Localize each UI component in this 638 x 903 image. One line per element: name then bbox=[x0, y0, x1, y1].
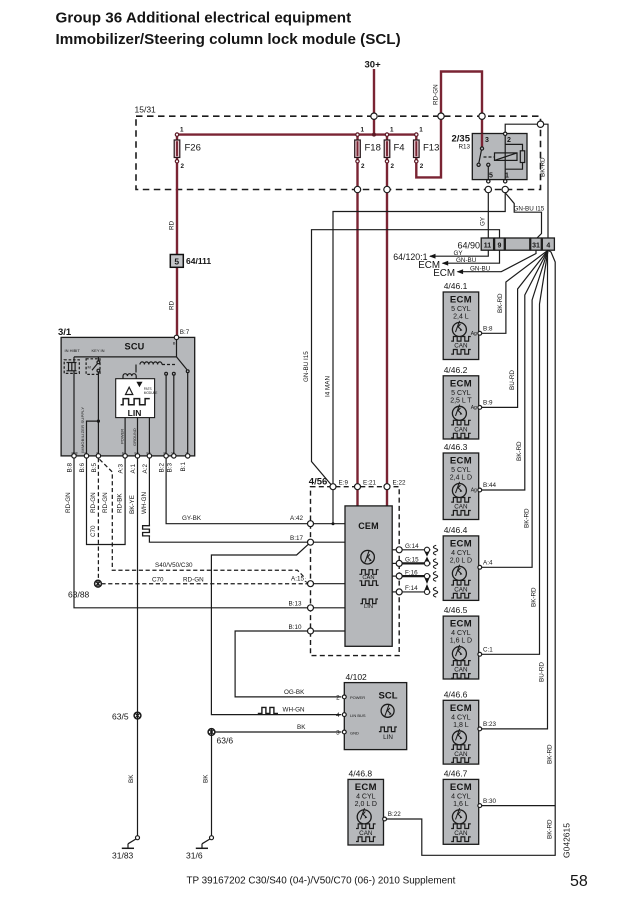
SCL immobilizer circle bbox=[381, 704, 394, 717]
svg-text:LIN: LIN bbox=[364, 604, 373, 610]
relay resistor branch bbox=[505, 144, 522, 150]
svg-text:GN-BU I15: GN-BU I15 bbox=[303, 351, 310, 382]
svg-text:4: 4 bbox=[336, 712, 340, 719]
LIN square wave bbox=[121, 399, 150, 405]
svg-text:BK: BK bbox=[128, 774, 135, 783]
wire B:13 internal bbox=[314, 607, 346, 609]
wire BK-RD to 4/46.4 A:4 bbox=[482, 250, 548, 567]
node A:15 bbox=[308, 581, 314, 587]
ground 31/83 bbox=[122, 836, 140, 849]
svg-text:RD-GN: RD-GN bbox=[90, 492, 97, 513]
ground point 63/6 bbox=[208, 729, 215, 736]
svg-text:POWER: POWER bbox=[120, 429, 125, 444]
svg-text:GN-BU: GN-BU bbox=[470, 266, 491, 273]
svg-text:E:22: E:22 bbox=[393, 479, 406, 486]
wire BK-RD to 4/46.7 B:30 and 4/46.8 B:22 bbox=[386, 250, 555, 855]
arrowhead 64/120:1 bbox=[429, 254, 436, 259]
wire BK-RD to 4/46.1 B:8 bbox=[482, 250, 548, 333]
wire dashed B:5 branch S40/V50/C30 to CEM A:15 bbox=[100, 459, 306, 578]
svg-text:R13: R13 bbox=[458, 144, 470, 151]
CEM immobilizer circle bbox=[361, 550, 375, 564]
svg-text:BK-RD: BK-RD bbox=[497, 293, 504, 313]
junction 30+ on bus bbox=[372, 133, 376, 137]
svg-text:B:8: B:8 bbox=[483, 326, 493, 333]
svg-text:A:15: A:15 bbox=[291, 576, 304, 583]
LIN wave on WH-GN wire bbox=[259, 707, 278, 714]
svg-text:WH-GN: WH-GN bbox=[141, 492, 148, 514]
arrowhead ECM upper bbox=[442, 261, 449, 266]
wire GN-BU pin31 to ECM arrow bbox=[458, 250, 536, 272]
PAGE-TITLE bbox=[56, 9, 401, 48]
contact B:3 bbox=[172, 372, 175, 375]
wire F13 to relay pin3 (RD-GN) bbox=[416, 72, 482, 178]
wire BK SCL pin3 to 63/6 bbox=[215, 731, 341, 733]
SCL pin 4 LIN BUS bbox=[342, 713, 346, 717]
svg-text:B:3: B:3 bbox=[166, 463, 173, 473]
connector 64/90 cell 4 bbox=[542, 238, 554, 250]
svg-text:63/5: 63/5 bbox=[112, 712, 129, 722]
node E:21 bbox=[355, 484, 361, 490]
svg-text:MODULE: MODULE bbox=[144, 391, 158, 395]
terminal relay pin5 bbox=[487, 180, 490, 183]
wire 30+ feed (RD) bbox=[373, 69, 375, 135]
svg-text:F26: F26 bbox=[185, 143, 201, 154]
svg-text:BK: BK bbox=[297, 724, 306, 731]
ground 31/6 bbox=[196, 836, 214, 849]
svg-text:64/90: 64/90 bbox=[457, 240, 480, 250]
svg-text:Ag: Ag bbox=[471, 405, 477, 411]
wire LIN ground A:1 bbox=[137, 418, 139, 456]
wire GY-BK B:2 to CEM A:42 bbox=[166, 458, 307, 524]
svg-text:LIN: LIN bbox=[128, 408, 142, 418]
svg-text:ECM: ECM bbox=[450, 703, 472, 714]
svg-text:GN-BU: GN-BU bbox=[456, 257, 477, 264]
svg-text:Immobilizer/Steering column lo: Immobilizer/Steering column lock module … bbox=[56, 31, 401, 48]
wire BK-RD to 4/46.5 C:1 bbox=[482, 250, 548, 654]
svg-text:B:13: B:13 bbox=[289, 601, 302, 608]
wire GY to 64/120:1 bbox=[430, 250, 488, 256]
svg-text:BK-RD: BK-RD bbox=[546, 744, 553, 764]
svg-text:POWER: POWER bbox=[350, 695, 365, 700]
svg-text:1: 1 bbox=[419, 127, 423, 134]
svg-text:ECM: ECM bbox=[450, 295, 472, 306]
svg-text:CAN: CAN bbox=[362, 575, 374, 581]
wire contact B:1 down bbox=[187, 373, 189, 456]
svg-text:G042615: G042615 bbox=[562, 823, 572, 858]
svg-text:2,4 L: 2,4 L bbox=[453, 314, 469, 321]
wire E:9 internal bbox=[332, 490, 334, 524]
svg-text:4 CYL: 4 CYL bbox=[451, 630, 471, 637]
svg-text:F13: F13 bbox=[423, 143, 439, 154]
svg-text:11: 11 bbox=[484, 243, 492, 250]
node A:42 bbox=[308, 521, 314, 527]
svg-text:GY-BK: GY-BK bbox=[182, 515, 202, 522]
wire RD-GN B:8 to CEM B:13 bbox=[74, 458, 308, 608]
svg-text:IMMOBILIZER SUPPLY: IMMOBILIZER SUPPLY bbox=[80, 407, 85, 453]
relay 2/35 box bbox=[472, 134, 527, 180]
svg-text:B:1: B:1 bbox=[180, 462, 187, 472]
wire A:42 internal bbox=[314, 523, 346, 525]
ECM module 4/46.6 bbox=[443, 689, 496, 764]
node relay pin1 on 15/31 boundary bbox=[502, 186, 508, 192]
svg-text:3: 3 bbox=[336, 730, 340, 737]
fuse F18 bbox=[355, 127, 381, 171]
svg-text:BK-RD: BK-RD bbox=[531, 587, 538, 607]
svg-text:3/1: 3/1 bbox=[58, 327, 72, 338]
svg-text:GROUND: GROUND bbox=[132, 428, 137, 446]
node RD-GN right on 15/31 boundary bbox=[479, 113, 485, 119]
ECM module 4/46.7 bbox=[443, 768, 496, 844]
wire BK-RD node to 64/90 pin4 bbox=[544, 124, 548, 238]
wire resistor bottom bbox=[505, 163, 522, 170]
svg-text:B:22: B:22 bbox=[388, 811, 401, 818]
tiny internal pin letters bbox=[72, 451, 189, 455]
relay actuator dashed bbox=[484, 156, 495, 158]
svg-text:B:7: B:7 bbox=[180, 329, 190, 336]
svg-text:F4: F4 bbox=[394, 143, 405, 154]
svg-text:G:14: G:14 bbox=[405, 543, 419, 550]
svg-text:F18: F18 bbox=[365, 143, 381, 154]
svg-text:E:21: E:21 bbox=[363, 479, 376, 486]
svg-text:5 CYL: 5 CYL bbox=[451, 390, 471, 397]
wire dashed C70 RD-GN 63/88 to CEM A:15 bbox=[101, 583, 307, 585]
svg-text:CAN: CAN bbox=[454, 667, 468, 674]
connector 64/111 (square 5) bbox=[170, 255, 211, 268]
svg-text:A:2: A:2 bbox=[142, 464, 149, 474]
svg-text:B:8: B:8 bbox=[67, 463, 74, 473]
wire GN-BU pin9 to ECM arrow bbox=[443, 250, 500, 263]
svg-text:TP 39167202 C30/S40 (04-)/V50/: TP 39167202 C30/S40 (04-)/V50/C70 (06-) … bbox=[187, 876, 456, 887]
svg-text:5: 5 bbox=[174, 256, 179, 266]
key switch dashed box bbox=[86, 359, 100, 375]
svg-text:31/83: 31/83 bbox=[112, 851, 134, 861]
pin SCU B:7 bbox=[174, 335, 178, 339]
svg-text:1: 1 bbox=[180, 127, 184, 134]
svg-text:B:44: B:44 bbox=[483, 482, 496, 489]
wire contact B:2 down bbox=[165, 375, 167, 456]
svg-text:30+: 30+ bbox=[365, 60, 382, 71]
svg-text:9: 9 bbox=[498, 243, 502, 250]
svg-text:ECM: ECM bbox=[355, 782, 377, 793]
connector 64/90 cell 31 bbox=[531, 238, 542, 250]
svg-text:1,8 L: 1,8 L bbox=[453, 722, 469, 729]
svg-text:C70: C70 bbox=[90, 525, 97, 537]
svg-text:M: M bbox=[88, 365, 91, 370]
svg-text:CAN: CAN bbox=[454, 751, 468, 758]
svg-text:GND: GND bbox=[350, 730, 359, 735]
fuse F26 bbox=[174, 127, 201, 171]
solenoid dashed link with spring bbox=[136, 362, 177, 373]
wire contact B:3 down bbox=[173, 375, 175, 456]
svg-text:BK-RD: BK-RD bbox=[540, 157, 547, 177]
wire GN-BU 64/90 pin9 to CEM E:9 bbox=[312, 230, 500, 485]
wire A:15 internal bbox=[314, 583, 346, 585]
SCL pin 3 GND bbox=[342, 730, 346, 734]
wire WH-GN SCL pin4 to CEM B:17 bbox=[211, 544, 341, 714]
svg-text:2,4 L D: 2,4 L D bbox=[450, 475, 472, 482]
svg-text:4: 4 bbox=[546, 243, 550, 250]
svg-text:F:14: F:14 bbox=[405, 585, 418, 592]
connector 64/90 cell 11 bbox=[481, 238, 493, 250]
LIN wave on A:2 wire bbox=[143, 525, 150, 538]
svg-text:SCL: SCL bbox=[379, 691, 398, 702]
svg-text:BU-RD: BU-RD bbox=[509, 370, 516, 390]
terminal relay pin1 bbox=[504, 180, 507, 183]
wire LIN bus A:2 bbox=[148, 418, 150, 456]
wire F4 down to CEM E:22 (RD) bbox=[386, 135, 388, 487]
relay contact NC bbox=[477, 163, 480, 166]
svg-text:ECM: ECM bbox=[450, 378, 472, 389]
svg-text:4/46.5: 4/46.5 bbox=[444, 605, 468, 615]
svg-text:OG-BK: OG-BK bbox=[284, 689, 305, 696]
svg-text:GY: GY bbox=[479, 216, 486, 226]
svg-text:CAN: CAN bbox=[359, 830, 373, 837]
svg-text:4/46.4: 4/46.4 bbox=[444, 525, 468, 535]
relay switch arm bbox=[479, 150, 482, 163]
wire B:7 internal vertical bbox=[176, 340, 178, 357]
node F4 wire on 15/31 boundary bbox=[384, 186, 390, 192]
junction B:6 branch bbox=[97, 420, 100, 423]
ECM module 4/46.2 bbox=[443, 365, 493, 439]
svg-text:64/111: 64/111 bbox=[186, 256, 211, 266]
svg-text:IN HIBIT: IN HIBIT bbox=[65, 348, 81, 353]
svg-text:B:6: B:6 bbox=[79, 463, 86, 473]
svg-text:WH-GN: WH-GN bbox=[283, 707, 305, 714]
wire BK-RD to 4/46.3 B:44 bbox=[482, 250, 548, 490]
svg-text:S40/V50/C30: S40/V50/C30 bbox=[155, 562, 193, 569]
svg-text:4/46.2: 4/46.2 bbox=[444, 365, 468, 375]
svg-text:Ag: Ag bbox=[471, 331, 477, 337]
ECM module 4/46.4 bbox=[443, 525, 493, 601]
svg-text:A:4: A:4 bbox=[483, 560, 493, 567]
wire antenna to pin B:8 bbox=[73, 373, 75, 456]
svg-text:GY: GY bbox=[454, 250, 464, 257]
wire GN-BU relay pin1 to 64/90 pin31 bbox=[505, 193, 541, 238]
svg-text:B:5: B:5 bbox=[91, 463, 98, 473]
svg-text:CEM: CEM bbox=[358, 521, 379, 531]
svg-text:4 CYL: 4 CYL bbox=[451, 793, 471, 800]
svg-text:4/46.1: 4/46.1 bbox=[444, 281, 468, 291]
svg-text:1,6 L: 1,6 L bbox=[453, 801, 469, 808]
wire B:17 internal bbox=[314, 541, 346, 543]
terminal relay pin2 bbox=[504, 132, 507, 135]
svg-text:4/56: 4/56 bbox=[309, 476, 328, 487]
svg-text:2: 2 bbox=[507, 137, 511, 144]
svg-text:4/102: 4/102 bbox=[346, 672, 368, 682]
node F18 wire on 15/31 boundary bbox=[354, 186, 360, 192]
svg-text:2: 2 bbox=[336, 695, 340, 702]
contact B:2 bbox=[165, 372, 168, 375]
svg-text:B:17: B:17 bbox=[290, 535, 303, 542]
ECM module 4/46.8 bbox=[348, 768, 401, 845]
wire relay pin2 to node BK-RD bbox=[505, 124, 540, 132]
key switch contact upper bbox=[97, 361, 100, 364]
svg-text:1: 1 bbox=[361, 127, 365, 134]
contact B:1 bbox=[186, 370, 189, 373]
svg-text:4/46.6: 4/46.6 bbox=[444, 689, 468, 699]
ECM module 4/46.1 bbox=[443, 281, 493, 360]
svg-text:2: 2 bbox=[181, 163, 185, 170]
wire red supply bus bbox=[177, 133, 416, 135]
svg-text:RD-GN: RD-GN bbox=[102, 492, 109, 513]
CEM right pins G:14 G:15 F:16 F:14 bbox=[392, 549, 396, 551]
wire F18 down to CEM E:21 (RD) bbox=[356, 135, 358, 487]
LIN triangle outline bbox=[126, 387, 133, 394]
wire internal supply rail bbox=[74, 356, 177, 358]
SCL LIN symbol bbox=[379, 727, 397, 732]
CEM CAN symbol bbox=[359, 570, 378, 575]
key switch contact lower bbox=[97, 369, 100, 372]
svg-text:31: 31 bbox=[532, 243, 540, 250]
node RD-GN left on 15/31 boundary bbox=[438, 113, 444, 119]
svg-text:5 CYL: 5 CYL bbox=[451, 467, 471, 474]
junction E:9/A:42 bbox=[332, 522, 335, 525]
wire branch to pin B:6 bbox=[87, 421, 99, 456]
fuse F13 bbox=[414, 127, 440, 171]
wire jumper B:6 to A:3 (C70) bbox=[87, 458, 126, 544]
svg-text:ECM: ECM bbox=[450, 538, 472, 549]
wire A:2 lower to B:17 bbox=[149, 537, 307, 542]
CEM dashed box 4/56 bbox=[311, 487, 400, 656]
svg-text:A:42: A:42 bbox=[290, 515, 303, 522]
svg-text:B:23: B:23 bbox=[483, 721, 496, 728]
svg-text:B:2: B:2 bbox=[159, 463, 166, 473]
svg-text:E:9: E:9 bbox=[339, 479, 349, 486]
svg-text:2: 2 bbox=[391, 163, 395, 170]
node B:17 bbox=[308, 539, 314, 545]
connector 64/90 blank cell bbox=[505, 238, 530, 250]
svg-text:BK-YE: BK-YE bbox=[129, 495, 136, 514]
key switch arm bbox=[92, 363, 98, 370]
svg-text:Group 36 Additional electrical: Group 36 Additional electrical equipment bbox=[56, 9, 352, 26]
antenna coil dashed box bbox=[64, 360, 79, 374]
svg-text:I4 MAN: I4 MAN bbox=[325, 376, 332, 397]
svg-text:3: 3 bbox=[485, 137, 489, 144]
svg-text:15/31: 15/31 bbox=[135, 105, 157, 115]
svg-text:4 CYL: 4 CYL bbox=[451, 550, 471, 557]
relay coil bbox=[495, 153, 518, 161]
svg-text:B:30: B:30 bbox=[483, 798, 496, 805]
SCU right selector arm from B:7 bbox=[177, 357, 187, 370]
svg-text:2,0 L D: 2,0 L D bbox=[355, 801, 377, 808]
wire branch to B:30 bbox=[482, 805, 556, 807]
svg-text:C:1: C:1 bbox=[483, 647, 493, 654]
svg-text:ECM: ECM bbox=[450, 456, 472, 467]
svg-text:BK-RD: BK-RD bbox=[516, 441, 523, 461]
wire BU-RD to 4/46.6 B:23 bbox=[482, 250, 548, 729]
svg-text:ECM: ECM bbox=[450, 619, 472, 630]
CEM box bbox=[345, 506, 392, 646]
svg-text:BU-RD: BU-RD bbox=[539, 662, 546, 682]
wire BK-YE A:1 to ground 31/83 bbox=[137, 458, 139, 836]
svg-text:BK-RD: BK-RD bbox=[546, 819, 553, 839]
wire BU-RD to 4/46.2 B:9 bbox=[482, 250, 548, 407]
svg-text:CAN: CAN bbox=[454, 343, 468, 350]
svg-text:RD-BK: RD-BK bbox=[117, 493, 124, 513]
svg-text:5 CYL: 5 CYL bbox=[451, 306, 471, 313]
svg-text:A:1: A:1 bbox=[130, 464, 137, 474]
svg-text:2: 2 bbox=[420, 163, 424, 170]
LIN module inductor bbox=[123, 374, 136, 379]
svg-text:4 CYL: 4 CYL bbox=[451, 714, 471, 721]
svg-text:B:9: B:9 bbox=[483, 400, 493, 407]
svg-text:1,6 L D: 1,6 L D bbox=[450, 638, 472, 645]
svg-text:2: 2 bbox=[361, 163, 365, 170]
svg-text:ECM: ECM bbox=[433, 268, 455, 279]
red stub E:21 bbox=[356, 490, 358, 506]
fuse F4 bbox=[384, 127, 404, 171]
wire GY relay pin5 to 64/90 pin11 bbox=[487, 193, 489, 238]
wire LIN power A:3 bbox=[124, 418, 126, 456]
svg-text:GN-BU I15: GN-BU I15 bbox=[514, 205, 545, 212]
svg-text:4/46.7: 4/46.7 bbox=[444, 768, 468, 778]
svg-text:RD: RD bbox=[169, 220, 176, 230]
CEM LIN symbol bbox=[360, 599, 378, 604]
svg-text:Ag: Ag bbox=[471, 488, 477, 494]
wire I4 relay pin1 to CEM E:9 bbox=[333, 193, 505, 484]
svg-text:4/46.3: 4/46.3 bbox=[444, 442, 468, 452]
LIN triangle filled bbox=[136, 382, 142, 388]
node B:10 bbox=[308, 628, 314, 634]
wire F26 to 64/111 and SCU B:7 (RD) bbox=[176, 135, 178, 337]
twisted pair CAN F:16/F:14 bbox=[402, 572, 437, 598]
svg-text:2,0 L D: 2,0 L D bbox=[450, 557, 472, 564]
wire B:10 internal bbox=[314, 630, 346, 632]
SCU bottom pins bbox=[72, 454, 190, 458]
ECM module 4/46.5 bbox=[443, 605, 493, 679]
svg-text:63/88: 63/88 bbox=[68, 590, 90, 600]
relay resistor bbox=[520, 151, 524, 163]
wire RD-GN into relay pin3 bbox=[481, 134, 483, 147]
node E:22 bbox=[384, 484, 390, 490]
svg-text:B:10: B:10 bbox=[289, 624, 302, 631]
svg-text:C70: C70 bbox=[152, 576, 164, 583]
svg-text:58: 58 bbox=[570, 873, 588, 890]
svg-text:RD: RD bbox=[169, 300, 176, 310]
red stub E:22 bbox=[386, 490, 388, 506]
svg-text:B: B bbox=[173, 341, 176, 346]
svg-text:4 CYL: 4 CYL bbox=[356, 793, 376, 800]
wire OG-BK CEM B:10 to SCL pin2 bbox=[235, 631, 341, 697]
svg-text:RD-GN: RD-GN bbox=[65, 492, 72, 513]
svg-text:RD-GN: RD-GN bbox=[183, 576, 204, 583]
antenna coil windings bbox=[67, 357, 77, 374]
svg-text:RD-GN: RD-GN bbox=[433, 84, 440, 105]
svg-text:4/46.8: 4/46.8 bbox=[349, 768, 373, 778]
ECM module 4/46.3 bbox=[443, 442, 496, 520]
svg-text:31/6: 31/6 bbox=[186, 851, 203, 861]
svg-text:63/6: 63/6 bbox=[217, 736, 234, 746]
svg-text:ECM: ECM bbox=[450, 782, 472, 793]
LIN module white box bbox=[116, 379, 155, 418]
wire 63/6 to ground 31/6 bbox=[211, 735, 213, 835]
SCL pin 2 POWER bbox=[342, 695, 346, 699]
node BK-RD on 15/31 right boundary bbox=[537, 121, 543, 127]
twisted pair CAN G:14/G:15 bbox=[402, 545, 437, 568]
wire into key switch bbox=[97, 357, 99, 361]
wire dashed B:5 to 63/88 bbox=[97, 458, 99, 580]
node relay pin5 on 15/31 boundary bbox=[485, 186, 491, 192]
fusebox 15/31 dashed outline bbox=[136, 116, 541, 189]
ground point 63/88 bbox=[95, 580, 102, 587]
node B:13 bbox=[308, 605, 314, 611]
svg-text:CAN: CAN bbox=[454, 426, 468, 433]
node 30+ entry on 15/31 boundary bbox=[371, 113, 377, 119]
relay switch contact pin3 bbox=[480, 147, 483, 150]
pin labels below SCU bbox=[67, 462, 188, 474]
svg-text:BK: BK bbox=[203, 774, 210, 783]
svg-text:2,5 L T: 2,5 L T bbox=[450, 397, 472, 404]
